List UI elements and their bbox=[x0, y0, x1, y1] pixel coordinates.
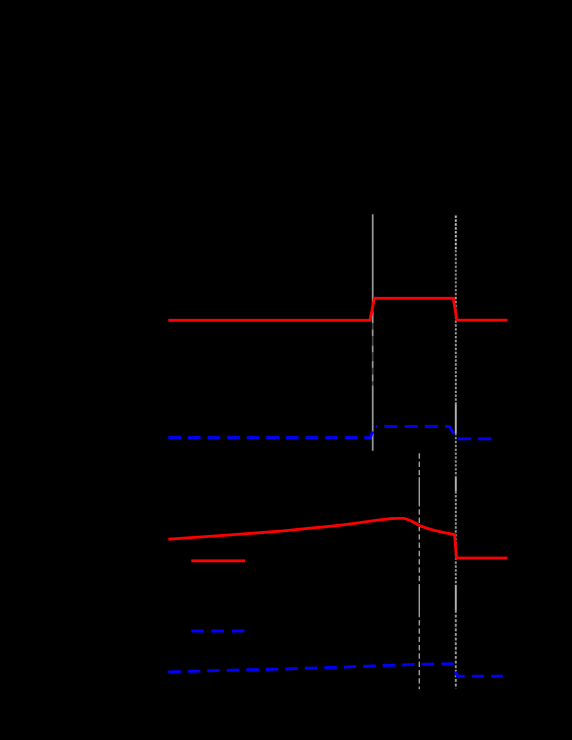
blue dashed curve raised section (top subplot) bbox=[377, 426, 492, 438]
t2 solid segment 1 bbox=[455, 405, 457, 434]
t2 dots bbox=[455, 433, 457, 477]
blue dashed curve (top subplot) bbox=[168, 426, 377, 437]
red step curve (top subplot) bbox=[168, 298, 507, 320]
t1 line bright solid bottom part bbox=[372, 385, 374, 450]
t1 line bright dash 2 bbox=[372, 346, 374, 353]
red temperature curve (bottom subplot) bbox=[168, 518, 507, 558]
t2 solid segment 3 bbox=[455, 585, 457, 610]
t3 solid segment 2 bbox=[418, 584, 420, 611]
vertical solid gray marker line t1 (top subplot): bright solid top part bbox=[372, 214, 374, 323]
t2 dots bottom bbox=[455, 610, 457, 689]
t1 line bright dash 3 bbox=[372, 361, 374, 368]
t3 dashes mid bbox=[418, 501, 420, 584]
vertical dashed gray marker line t3 (bottom subplot) bbox=[418, 453, 420, 477]
t2 dots fading bbox=[455, 250, 457, 297]
blue dashed legend sample line bbox=[191, 630, 244, 633]
red legend sample line bbox=[191, 559, 245, 562]
t2 dots mid bbox=[455, 297, 457, 405]
t2 solid segment 2 bbox=[455, 477, 457, 491]
t1 line bright dash 1 bbox=[372, 330, 374, 337]
t3 solid segment 1 bbox=[418, 477, 420, 501]
t1 line bright dash 4 bbox=[372, 375, 374, 382]
t1 line dim middle part bbox=[372, 323, 374, 385]
blue dashed ambient curve (bottom subplot) bbox=[168, 664, 503, 676]
vertical dotted gray marker line t2 (spans both subplots): bright dots at top bbox=[455, 216, 457, 251]
t3 dashes bottom bbox=[418, 612, 420, 689]
t2 dots bbox=[455, 491, 457, 585]
